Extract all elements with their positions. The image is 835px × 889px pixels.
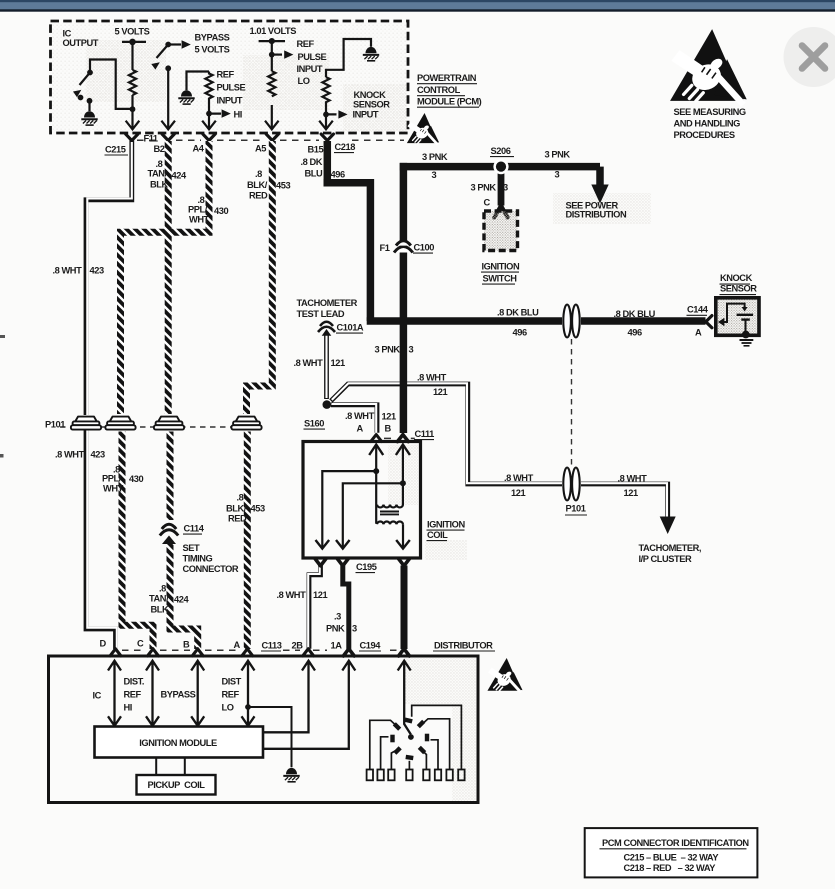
svg-text:I/P CLUSTER: I/P CLUSTER xyxy=(639,554,692,564)
svg-text:POWERTRAIN: POWERTRAIN xyxy=(417,73,477,83)
svg-text:C195: C195 xyxy=(356,562,377,572)
svg-text:BLK/: BLK/ xyxy=(226,504,247,514)
svg-text:IGNITION: IGNITION xyxy=(427,520,465,530)
svg-text:S160: S160 xyxy=(304,419,324,429)
svg-text:121: 121 xyxy=(313,590,327,600)
svg-text:REF: REF xyxy=(222,690,240,700)
svg-text:.3: .3 xyxy=(334,612,341,622)
svg-text:C218 – RED – 32 WAY: C218 – RED – 32 WAY xyxy=(624,863,717,873)
svg-text:3 PNK: 3 PNK xyxy=(375,345,401,355)
svg-text:PNK: PNK xyxy=(326,624,345,634)
svg-text:C114: C114 xyxy=(184,524,205,534)
svg-text:HI: HI xyxy=(234,110,242,120)
svg-text:KNOCK: KNOCK xyxy=(720,273,753,283)
svg-text:3: 3 xyxy=(555,170,560,180)
svg-text:C: C xyxy=(484,198,491,208)
svg-text:S206: S206 xyxy=(491,146,511,156)
svg-text:3: 3 xyxy=(409,345,414,355)
svg-text:SET: SET xyxy=(183,543,201,553)
svg-text:LO: LO xyxy=(298,76,310,86)
svg-text:C144: C144 xyxy=(687,305,709,315)
svg-text:REF: REF xyxy=(297,39,315,49)
svg-text:RED: RED xyxy=(228,514,247,524)
svg-text:SWITCH: SWITCH xyxy=(483,274,518,284)
svg-text:.8 WHT: .8 WHT xyxy=(53,266,83,276)
svg-text:CONNECTOR: CONNECTOR xyxy=(183,564,239,574)
svg-text:DIST.: DIST. xyxy=(124,677,144,687)
svg-text:BYPASS: BYPASS xyxy=(161,690,196,700)
svg-text:424: 424 xyxy=(172,171,187,181)
svg-text:DIST: DIST xyxy=(222,677,242,687)
svg-text:PULSE: PULSE xyxy=(217,83,246,93)
svg-text:P101: P101 xyxy=(566,504,586,514)
svg-text:1A: 1A xyxy=(331,641,343,651)
svg-text:PICKUP COIL: PICKUP COIL xyxy=(147,780,205,790)
svg-text:2B: 2B xyxy=(292,641,304,651)
svg-text:B2: B2 xyxy=(154,144,165,154)
svg-text:TAN/: TAN/ xyxy=(148,169,168,179)
svg-text:121: 121 xyxy=(624,488,638,498)
svg-text:3 PNK: 3 PNK xyxy=(422,152,448,162)
svg-text:3 PNK: 3 PNK xyxy=(545,150,571,160)
svg-text:.8 DK BLU: .8 DK BLU xyxy=(614,309,656,319)
svg-text:A: A xyxy=(234,640,241,650)
svg-text:5 VOLTS: 5 VOLTS xyxy=(195,45,230,55)
svg-text:430: 430 xyxy=(214,206,228,216)
svg-text:C100: C100 xyxy=(414,243,435,253)
svg-text:.8 DK: .8 DK xyxy=(301,157,323,167)
svg-text:TACHOMETER,: TACHOMETER, xyxy=(639,543,702,553)
svg-text:DISTRIBUTOR: DISTRIBUTOR xyxy=(434,641,493,651)
svg-text:3: 3 xyxy=(432,170,437,180)
svg-text:BLK: BLK xyxy=(151,605,169,615)
svg-text:D: D xyxy=(100,639,107,649)
svg-text:3: 3 xyxy=(503,183,508,193)
svg-text:A: A xyxy=(357,424,364,434)
svg-text:.8 DK BLU: .8 DK BLU xyxy=(497,308,539,318)
svg-text:PPL/: PPL/ xyxy=(102,474,122,484)
svg-text:INPUT: INPUT xyxy=(353,110,379,120)
svg-text:AND HANDLING: AND HANDLING xyxy=(674,119,741,129)
svg-text:RED: RED xyxy=(249,191,268,201)
svg-text:IC: IC xyxy=(93,691,102,701)
svg-text:424: 424 xyxy=(174,595,189,605)
svg-text:423: 423 xyxy=(90,266,104,276)
svg-text:121: 121 xyxy=(511,488,525,498)
svg-text:496: 496 xyxy=(628,328,642,338)
svg-text:IGNITION: IGNITION xyxy=(482,262,520,272)
svg-text:B: B xyxy=(183,640,190,650)
svg-text:.8 WHT: .8 WHT xyxy=(504,473,534,483)
svg-text:SENSOR: SENSOR xyxy=(353,100,390,110)
svg-text:PCM CONNECTOR IDENTIFICATION: PCM CONNECTOR IDENTIFICATION xyxy=(602,838,749,848)
svg-text:.8 WHT: .8 WHT xyxy=(618,474,648,484)
svg-text:DISTRIBUTION: DISTRIBUTION xyxy=(566,210,627,220)
svg-text:.8 WHT: .8 WHT xyxy=(345,411,375,421)
svg-text:5 VOLTS: 5 VOLTS xyxy=(115,27,150,37)
svg-text:BLK: BLK xyxy=(150,180,168,190)
svg-text:121: 121 xyxy=(433,387,447,397)
svg-text:A5: A5 xyxy=(255,144,266,154)
svg-text:121: 121 xyxy=(382,412,396,422)
svg-text:REF: REF xyxy=(124,690,142,700)
svg-text:453: 453 xyxy=(251,504,265,514)
svg-text:INPUT: INPUT xyxy=(297,64,323,74)
svg-text:SENSOR: SENSOR xyxy=(720,284,757,294)
svg-text:WHT: WHT xyxy=(103,484,124,494)
svg-text:KNOCK: KNOCK xyxy=(354,90,387,100)
svg-text:C101A: C101A xyxy=(337,323,364,333)
svg-text:B: B xyxy=(385,424,392,434)
svg-text:.8: .8 xyxy=(198,195,205,205)
svg-text:C111: C111 xyxy=(415,429,435,439)
svg-text:BLK/: BLK/ xyxy=(247,180,268,190)
svg-text:496: 496 xyxy=(513,328,527,338)
svg-text:1.01 VOLTS: 1.01 VOLTS xyxy=(250,26,297,36)
svg-text:WHT: WHT xyxy=(189,215,210,225)
svg-text:3 PNK: 3 PNK xyxy=(471,183,497,193)
svg-text:CONTROL: CONTROL xyxy=(417,85,461,95)
svg-text:COIL: COIL xyxy=(427,530,448,540)
svg-text:F1: F1 xyxy=(380,243,390,253)
svg-text:430: 430 xyxy=(129,474,143,484)
svg-text:3: 3 xyxy=(352,624,357,634)
svg-text:.8: .8 xyxy=(255,169,262,179)
svg-text:MODULE (PCM): MODULE (PCM) xyxy=(417,97,482,107)
svg-text:INPUT: INPUT xyxy=(217,96,243,106)
svg-text:C215 – BLUE – 32 WAY: C215 – BLUE – 32 WAY xyxy=(624,853,720,863)
svg-text:PULSE: PULSE xyxy=(298,52,327,62)
svg-text:TEST LEAD: TEST LEAD xyxy=(297,309,345,319)
svg-text:B15: B15 xyxy=(308,145,324,155)
svg-text:C: C xyxy=(137,639,144,649)
svg-text:496: 496 xyxy=(331,170,345,180)
svg-text:C218: C218 xyxy=(335,142,356,152)
svg-text:PROCEDURES: PROCEDURES xyxy=(674,130,735,140)
svg-text:BYPASS: BYPASS xyxy=(195,33,230,43)
svg-text:C113: C113 xyxy=(262,641,282,651)
svg-text:P101: P101 xyxy=(45,420,65,430)
svg-text:LO: LO xyxy=(222,703,234,713)
svg-text:TAN/: TAN/ xyxy=(149,594,169,604)
svg-text:.8: .8 xyxy=(237,493,244,503)
svg-text:121: 121 xyxy=(331,358,345,368)
svg-text:C194: C194 xyxy=(360,641,382,651)
svg-text:TIMING: TIMING xyxy=(183,554,213,564)
svg-text:BLU: BLU xyxy=(305,169,323,179)
svg-text:.8 WHT: .8 WHT xyxy=(55,450,85,460)
svg-text:PPL/: PPL/ xyxy=(188,205,208,215)
svg-text:OUTPUT: OUTPUT xyxy=(63,38,99,48)
svg-text:HI: HI xyxy=(124,703,132,713)
svg-text:.8: .8 xyxy=(156,159,163,169)
svg-text:.8 WHT: .8 WHT xyxy=(277,590,307,600)
svg-text:.8: .8 xyxy=(159,584,166,594)
svg-text:REF: REF xyxy=(217,70,235,80)
svg-text:A4: A4 xyxy=(193,144,205,154)
svg-text:.8 WHT: .8 WHT xyxy=(417,373,447,383)
svg-text:TACHOMETER: TACHOMETER xyxy=(297,298,358,308)
svg-text:IGNITION MODULE: IGNITION MODULE xyxy=(139,738,217,748)
svg-text:423: 423 xyxy=(91,450,105,460)
svg-text:.8 WHT: .8 WHT xyxy=(294,358,324,368)
svg-text:C215: C215 xyxy=(105,145,126,155)
svg-text:453: 453 xyxy=(276,181,290,191)
svg-text:SEE MEASURING: SEE MEASURING xyxy=(674,107,746,117)
svg-text:F11: F11 xyxy=(144,134,158,144)
svg-text:A: A xyxy=(695,328,702,338)
